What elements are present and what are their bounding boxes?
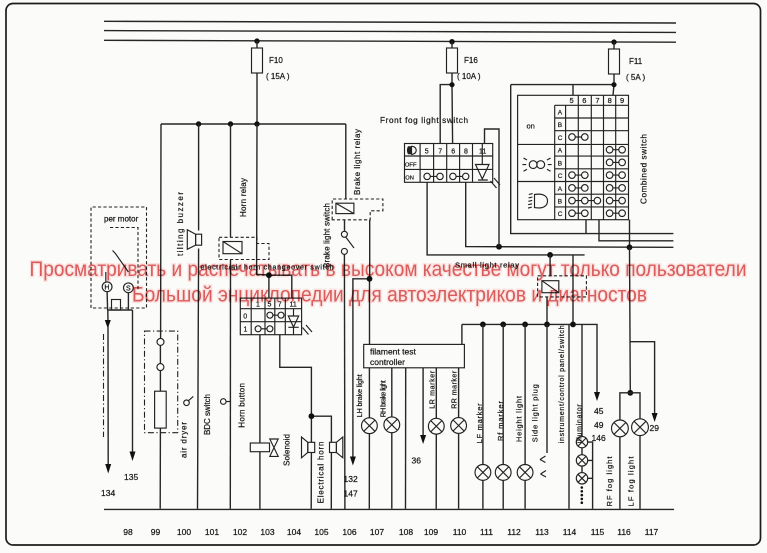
svg-text:29: 29 (650, 423, 660, 433)
svg-text:A: A (558, 148, 563, 155)
svg-text:C: C (558, 173, 563, 180)
wire 135 (124, 293, 138, 482)
contacts row 0 (270, 314, 281, 316)
svg-text:112: 112 (507, 527, 521, 537)
motor terminal H (102, 282, 112, 292)
svg-text:134: 134 (101, 488, 115, 498)
filament test controller (364, 344, 465, 367)
motor connector box (112, 300, 121, 311)
brake light switch (341, 220, 354, 510)
buzzer feed wire (198, 124, 199, 509)
combined switch left riser (511, 85, 674, 234)
svg-text:111: 111 (480, 527, 493, 537)
diode in column 11 (476, 144, 490, 181)
contact pairs (569, 134, 626, 217)
svg-text:( 10A ): ( 10A ) (457, 72, 481, 81)
electric/air horn changeover switch (240, 298, 312, 335)
brake light relay (332, 199, 383, 220)
svg-text:7: 7 (595, 96, 599, 105)
lamp LF marker (475, 465, 491, 481)
electrical horn 1 (302, 437, 315, 458)
height light wire (524, 324, 526, 508)
svg-text:99: 99 (151, 527, 161, 537)
mechanical link dash-dot (103, 334, 105, 437)
electrical horn 2 (330, 437, 343, 458)
svg-text:A: A (558, 110, 563, 117)
lamp height light (517, 465, 533, 481)
watermark (30, 257, 747, 307)
illuminator lamps (576, 436, 587, 484)
lamp LR marker (428, 418, 444, 434)
wire 108 (405, 368, 407, 509)
combined switch (518, 95, 629, 219)
headlight icon (407, 146, 411, 154)
svg-text:105: 105 (314, 527, 328, 537)
svg-text:Solenoid: Solenoid (282, 434, 291, 466)
svg-text:LR marker: LR marker (429, 370, 436, 409)
horn button (221, 399, 231, 405)
svg-text:filament test: filament test (370, 347, 416, 357)
svg-text:8: 8 (464, 149, 468, 156)
svg-text:Просматривать и распечатывать: Просматривать и распечатывать в высоком … (30, 257, 747, 281)
svg-text:5: 5 (425, 149, 429, 156)
svg-text:RH brake light: RH brake light (380, 380, 387, 417)
illuminator return wire (588, 442, 593, 509)
svg-text:Electrical horn: Electrical horn (316, 442, 325, 504)
svg-text:1: 1 (244, 326, 248, 333)
svg-text:Combined switch: Combined switch (640, 134, 649, 204)
svg-text:117: 117 (645, 527, 659, 537)
lamp RH brake light (384, 417, 400, 433)
svg-text:8: 8 (608, 96, 612, 105)
svg-text:135: 135 (124, 472, 138, 482)
svg-text:controller: controller (370, 357, 405, 367)
svg-text:146: 146 (592, 433, 606, 443)
svg-text:A: A (558, 186, 563, 193)
brake relay output node (344, 220, 373, 499)
svg-text:LH brake light: LH brake light (357, 374, 364, 417)
svg-text:7: 7 (438, 149, 442, 156)
svg-text:147: 147 (344, 489, 358, 499)
icon fog light (528, 194, 548, 209)
svg-text:102: 102 (233, 527, 247, 537)
marker bus y324 (462, 322, 606, 444)
lamp RF fog light (612, 420, 629, 509)
front fog light switch feed wires (440, 85, 452, 144)
svg-text:F16: F16 (464, 56, 478, 65)
svg-text:101: 101 (205, 527, 219, 537)
svg-text:106: 106 (342, 527, 356, 537)
svg-text:Horn relay: Horn relay (239, 178, 248, 217)
combined switch pin6 wire (585, 220, 587, 234)
svg-text:RR marker: RR marker (452, 370, 459, 409)
svg-text:132: 132 (344, 474, 358, 484)
svg-text:tilting buzzer: tilting buzzer (176, 192, 185, 256)
svg-text:Side light plug: Side light plug (530, 384, 539, 442)
wire 134 (101, 292, 133, 498)
svg-text:LF fog light: LF fog light (627, 456, 636, 507)
svg-text:6: 6 (582, 96, 586, 105)
bus wire bottom (104, 40, 676, 42)
solenoid wire (259, 335, 261, 509)
svg-text:( 5A ): ( 5A ) (626, 73, 645, 82)
lamp LF fog light (632, 419, 649, 509)
air dryer (145, 331, 178, 433)
svg-text:104: 104 (287, 527, 301, 537)
svg-text:Horn button: Horn button (238, 383, 247, 428)
LH brake light wire (368, 368, 370, 509)
svg-text:Brake light relay: Brake light relay (353, 129, 362, 195)
combined switch pin9 wire (629, 220, 631, 248)
RF marker wire (502, 324, 504, 508)
right rail C (466, 182, 674, 250)
front fog light switch (405, 144, 501, 189)
lamp LH brake light (362, 418, 378, 434)
illuminator wire (581, 324, 583, 436)
svg-text:B: B (558, 199, 562, 206)
svg-text:F11: F11 (629, 57, 643, 66)
rail D small light relay (427, 182, 584, 257)
combined switch feed rail (511, 85, 614, 96)
BDC switch contact (184, 396, 194, 405)
instrument panel wire (568, 324, 570, 508)
svg-text:36: 36 (412, 456, 422, 466)
side light plug wire (546, 324, 548, 453)
fuse F11 (609, 39, 646, 84)
svg-text:45: 45 (594, 406, 604, 416)
combined switch pin7 wire (599, 220, 673, 241)
F10 feed to changeover switch (257, 124, 292, 298)
wire 36 (412, 368, 427, 466)
svg-text:air dryer: air dryer (179, 422, 188, 458)
bottom rail (104, 508, 674, 510)
svg-text:illuminator: illuminator (576, 404, 583, 444)
lamp RF marker (495, 465, 511, 481)
horn relay feed wire (230, 124, 232, 237)
svg-text:113: 113 (535, 527, 549, 537)
horn button wire (229, 260, 231, 509)
svg-text:Rf marker: Rf marker (496, 401, 505, 442)
svg-text:LF marker: LF marker (475, 403, 484, 444)
svg-text:Height light: Height light (514, 395, 523, 442)
svg-text:instrument/control panel/switc: instrument/control panel/switch (559, 325, 566, 443)
terminal numbers (123, 527, 658, 537)
bus wire top (104, 21, 676, 23)
wiper switch arm (113, 251, 129, 273)
LF marker wire (482, 324, 484, 508)
svg-text:107: 107 (370, 527, 384, 537)
horn relay (219, 237, 269, 259)
contacts row 1 (258, 328, 270, 330)
svg-text:5: 5 (570, 96, 574, 105)
bus wire mid-left y124 (161, 121, 346, 126)
buzzer (187, 230, 201, 250)
svg-text:F10: F10 (269, 56, 283, 65)
fuse F10 (252, 38, 290, 124)
motor terminal S (123, 283, 133, 293)
svg-text:S: S (126, 286, 131, 293)
RR marker wire (458, 368, 460, 509)
svg-text:OFF: OFF (405, 162, 417, 168)
svg-text:C: C (558, 135, 563, 142)
svg-text:per motor: per motor (104, 215, 139, 224)
lamp RR marker (451, 418, 467, 434)
svg-text:B: B (558, 160, 562, 167)
diode (288, 309, 298, 335)
small light relay (538, 255, 587, 325)
ON row contacts (427, 175, 466, 177)
bus wire middle (104, 31, 676, 33)
svg-text:109: 109 (424, 527, 438, 537)
svg-text:110: 110 (453, 527, 467, 537)
svg-text:Front fog light switch: Front fog light switch (380, 116, 468, 125)
fuse F16 (447, 39, 481, 85)
wiper motor box (91, 207, 147, 308)
svg-text:98: 98 (123, 527, 133, 537)
svg-text:on: on (527, 122, 535, 131)
svg-text:115: 115 (591, 527, 605, 537)
horn feed wire (280, 335, 332, 509)
fog lamp feed (620, 247, 659, 433)
svg-text:100: 100 (177, 527, 191, 537)
icon small light (522, 158, 551, 171)
RH brake light wire (391, 368, 393, 509)
svg-text:9: 9 (620, 96, 624, 105)
svg-text:6: 6 (451, 149, 455, 156)
fog switch col11 riser (485, 129, 500, 247)
svg-text:( 15A ): ( 15A ) (266, 72, 290, 81)
svg-text:BDC switch: BDC switch (203, 394, 212, 435)
svg-text:H: H (104, 285, 109, 292)
svg-text:0: 0 (243, 313, 247, 320)
LR marker wire (435, 368, 437, 509)
svg-text:49: 49 (594, 420, 604, 430)
svg-text:B: B (558, 122, 562, 129)
svg-text:RF fog light: RF fog light (605, 456, 614, 507)
svg-text:ON: ON (405, 175, 414, 181)
svg-text:103: 103 (260, 527, 274, 537)
svg-text:116: 116 (617, 527, 631, 537)
side light plug forks (540, 456, 546, 477)
svg-text:C: C (558, 211, 563, 218)
air dryer branch wire (159, 124, 162, 509)
illuminator dotted tail (581, 486, 584, 504)
brake light relay feed (345, 124, 347, 199)
solenoid (250, 439, 278, 456)
svg-text:Большой энциклопедии для автоэ: Большой энциклопедии для автоэлектриков … (132, 283, 647, 307)
svg-text:114: 114 (563, 527, 577, 537)
svg-text:108: 108 (399, 527, 413, 537)
